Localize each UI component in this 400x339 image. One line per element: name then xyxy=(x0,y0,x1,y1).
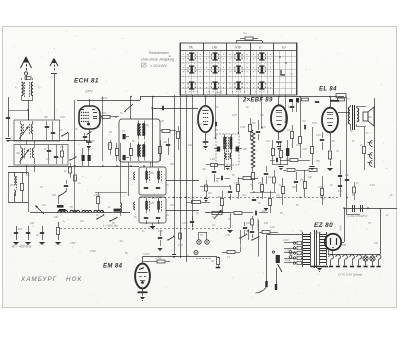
svg-text:ohne einstr. Regelung: ohne einstr. Regelung xyxy=(141,58,174,62)
svg-text:0.25: 0.25 xyxy=(60,116,65,119)
svg-text:0.5M: 0.5M xyxy=(70,242,75,245)
svg-text:1M: 1M xyxy=(190,196,195,200)
svg-text:7V: 7V xyxy=(347,97,350,101)
svg-text:1M: 1M xyxy=(96,126,99,129)
svg-text:≈20V: ≈20V xyxy=(143,252,151,256)
svg-text:0.25: 0.25 xyxy=(178,244,183,247)
svg-text:Resistenzen: Resistenzen xyxy=(149,51,169,55)
svg-text:0.5M: 0.5M xyxy=(240,126,245,129)
svg-text:100: 100 xyxy=(246,222,251,225)
svg-text:ХАМБУРГ: ХАМБУРГ xyxy=(20,276,57,283)
svg-text:100: 100 xyxy=(30,222,35,225)
svg-text:Ag: Ag xyxy=(242,31,247,35)
svg-text:220V: 220V xyxy=(282,239,289,242)
svg-text:Δf ≈ 460 kHz: Δf ≈ 460 kHz xyxy=(11,245,32,249)
svg-text:f = 500 Hz: f = 500 Hz xyxy=(103,224,118,228)
svg-text:25k: 25k xyxy=(344,174,350,177)
svg-text:25k: 25k xyxy=(149,172,155,175)
svg-text:2×7V 0.3A (Skala): 2×7V 0.3A (Skala) xyxy=(337,273,362,277)
svg-text:470: 470 xyxy=(214,129,219,132)
svg-text:2×EBF 89: 2×EBF 89 xyxy=(242,98,273,104)
svg-text:1M: 1M xyxy=(302,120,305,123)
svg-text:0.25: 0.25 xyxy=(232,114,237,117)
svg-text:470: 470 xyxy=(18,228,23,231)
svg-text:100: 100 xyxy=(286,158,291,161)
svg-text:185V: 185V xyxy=(215,91,223,95)
svg-text:1M: 1M xyxy=(208,192,211,195)
svg-text:0.05: 0.05 xyxy=(210,158,215,161)
svg-text:1M: 1M xyxy=(287,129,290,132)
svg-text:1M: 1M xyxy=(276,194,279,197)
svg-text:10n: 10n xyxy=(242,194,247,197)
svg-text:25k: 25k xyxy=(257,182,263,185)
svg-text:285V: 285V xyxy=(339,225,343,232)
svg-text:0.5M: 0.5M xyxy=(94,194,99,197)
svg-text:EM 84: EM 84 xyxy=(103,264,123,270)
svg-text:0.5M: 0.5M xyxy=(250,122,255,125)
svg-text:100: 100 xyxy=(52,194,57,197)
svg-text:10n: 10n xyxy=(374,242,379,245)
svg-text:EZ 80: EZ 80 xyxy=(314,222,333,229)
svg-text:EL 84: EL 84 xyxy=(319,87,337,93)
svg-text:0.05: 0.05 xyxy=(302,148,307,151)
svg-text:470: 470 xyxy=(160,120,165,123)
svg-text:25k: 25k xyxy=(9,184,15,187)
svg-text:0.5M: 0.5M xyxy=(234,182,239,185)
svg-text:470k: 470k xyxy=(156,256,162,260)
svg-text:100: 100 xyxy=(308,176,313,179)
svg-text:160V: 160V xyxy=(101,96,109,100)
svg-text:ne: ne xyxy=(168,54,172,58)
svg-text:100: 100 xyxy=(338,190,343,193)
svg-text:470: 470 xyxy=(342,244,347,247)
svg-text:0.25: 0.25 xyxy=(296,144,301,147)
svg-text:0.25: 0.25 xyxy=(370,184,375,187)
svg-text:25k: 25k xyxy=(169,204,175,207)
svg-text:110V: 110V xyxy=(285,259,291,262)
svg-text:25k: 25k xyxy=(242,148,248,151)
svg-text:25k: 25k xyxy=(299,179,305,182)
svg-text:470: 470 xyxy=(54,216,59,219)
svg-text:1M: 1M xyxy=(262,126,265,129)
svg-text:НОК: НОК xyxy=(66,276,82,283)
svg-text:1M: 1M xyxy=(268,176,271,179)
svg-text:1M: 1M xyxy=(42,204,45,207)
svg-text:0.5M: 0.5M xyxy=(182,222,187,225)
svg-text:1M: 1M xyxy=(80,220,83,223)
svg-text:KW: KW xyxy=(235,45,241,49)
svg-text:1M: 1M xyxy=(26,174,29,177)
svg-text:0.5M: 0.5M xyxy=(196,123,201,126)
svg-text:1M: 1M xyxy=(322,250,325,253)
svg-text:IO: IO xyxy=(282,45,286,49)
svg-text:170V: 170V xyxy=(85,90,93,94)
svg-text:0.5M: 0.5M xyxy=(318,186,323,189)
svg-text:0.05: 0.05 xyxy=(158,230,163,233)
svg-text:25k: 25k xyxy=(169,163,175,166)
svg-text:L₁: L₁ xyxy=(15,85,18,89)
svg-text:0.25: 0.25 xyxy=(316,134,321,137)
svg-text:100: 100 xyxy=(150,202,155,205)
svg-text:LW: LW xyxy=(212,45,218,49)
svg-text:1M: 1M xyxy=(266,140,269,143)
svg-text:25k: 25k xyxy=(315,160,321,163)
svg-text:0.25: 0.25 xyxy=(152,197,157,200)
svg-text:= 20 kΩ/V: = 20 kΩ/V xyxy=(150,64,167,68)
svg-text:0.25: 0.25 xyxy=(90,140,95,143)
svg-text:100: 100 xyxy=(163,141,168,144)
svg-text:25k: 25k xyxy=(29,130,35,133)
svg-text:100: 100 xyxy=(188,144,193,147)
svg-text:470: 470 xyxy=(226,234,231,237)
svg-text:-245V: -245V xyxy=(314,231,323,235)
svg-text:0.25: 0.25 xyxy=(312,122,317,125)
svg-text:10n: 10n xyxy=(174,132,179,135)
svg-text:0.25: 0.25 xyxy=(270,226,275,229)
svg-text:25k: 25k xyxy=(59,146,65,149)
svg-text:25k: 25k xyxy=(291,186,297,189)
svg-text:0.5M: 0.5M xyxy=(90,250,95,253)
svg-text:1M: 1M xyxy=(46,158,49,161)
svg-text:0.05: 0.05 xyxy=(330,140,335,143)
svg-text:470: 470 xyxy=(264,222,269,225)
svg-text:ECH 81: ECH 81 xyxy=(74,78,99,85)
svg-text:10n: 10n xyxy=(74,128,79,131)
